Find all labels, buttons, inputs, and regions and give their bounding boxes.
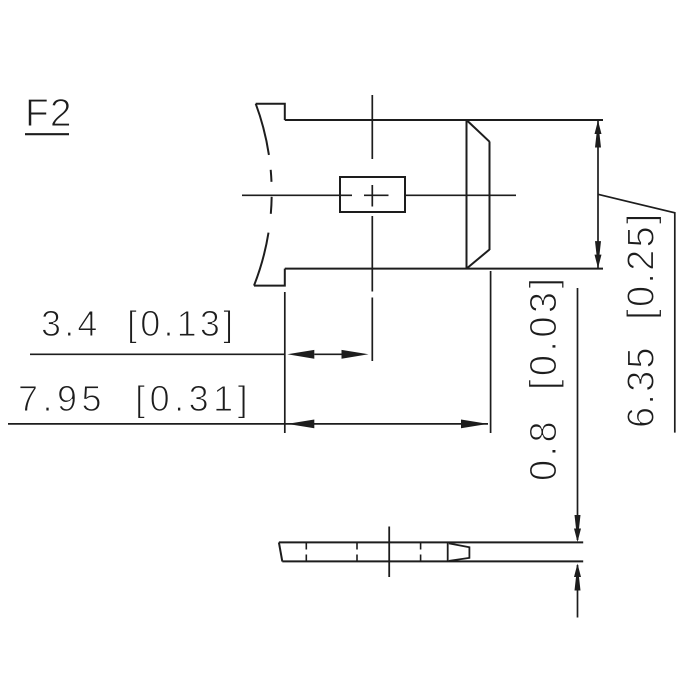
top view: tip right edge bbox=[489, 142, 491, 251]
side view: bottom line with extension bbox=[282, 560, 583, 562]
dim 6.35 bottom arrow bbox=[595, 241, 602, 268]
top view: tip chamfer bottom diagonal bbox=[467, 250, 490, 269]
horizontal centerline bbox=[242, 194, 516, 196]
vertical centerline bbox=[371, 95, 373, 361]
dim 0.8 lower line bbox=[577, 565, 579, 618]
side view: bend tick 1 bbox=[305, 542, 307, 561]
title underline bbox=[25, 133, 69, 135]
svg-text:6.35 [0.25]: 6.35 [0.25] bbox=[621, 211, 663, 428]
dim 6.35 line bbox=[597, 121, 599, 269]
side view: bend tick 3 bbox=[420, 542, 422, 561]
extension line at tab edge x=285 bbox=[284, 292, 286, 433]
side view: tip start tick bbox=[447, 542, 449, 561]
top view: bottom-left tab bbox=[254, 269, 285, 286]
dim 6.35 top arrow bbox=[595, 121, 602, 148]
dim 3.4 left arrow bbox=[287, 350, 314, 359]
top view: hole rectangle bbox=[340, 177, 405, 212]
side view: top line with extension bbox=[279, 541, 583, 543]
top view: bevel left vertical bbox=[466, 120, 468, 269]
side view: tip chamfer bbox=[449, 543, 470, 561]
side view: vertical centerline bbox=[388, 527, 390, 578]
dim 0.8 upper arrow bbox=[574, 515, 581, 542]
svg-text:F2: F2 bbox=[25, 92, 73, 135]
top view: top edge with 6.35 extension line bbox=[285, 119, 603, 121]
top view: left curved edge arc bbox=[254, 104, 272, 286]
svg-text:7.95 [0.31]: 7.95 [0.31] bbox=[18, 378, 252, 419]
extension line at tip x=491 bbox=[490, 271, 492, 433]
side view: left end cap bbox=[279, 542, 282, 561]
top view: tip chamfer top diagonal bbox=[467, 120, 490, 142]
top view: top-left tab bbox=[256, 104, 285, 120]
dim 7.95 right arrow bbox=[461, 420, 488, 429]
svg-text:0.8 [0.03]: 0.8 [0.03] bbox=[523, 275, 565, 481]
dim 3.4 text line bbox=[30, 353, 285, 355]
dim 0.8 lower arrow bbox=[574, 564, 581, 591]
dim 3.4 right arrow bbox=[342, 350, 369, 359]
top view: bottom edge with 6.35 extension line bbox=[285, 268, 603, 270]
svg-text:3.4 [0.13]: 3.4 [0.13] bbox=[41, 303, 236, 344]
dim 0.8 upper line bbox=[577, 288, 579, 540]
dim 3.4 connector line bbox=[314, 353, 341, 355]
dim 6.35 leader bbox=[598, 194, 675, 432]
dim 7.95 line bbox=[8, 423, 488, 425]
side view: bend tick 2 bbox=[356, 542, 358, 561]
dim 7.95 left arrow bbox=[287, 420, 314, 429]
